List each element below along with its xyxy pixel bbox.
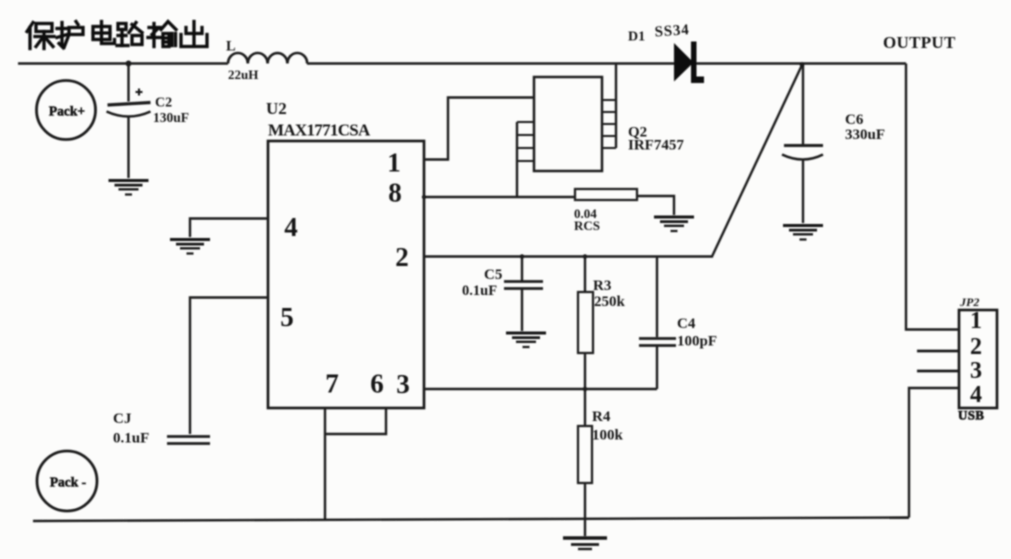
svg-text:U2: U2 [266,99,287,118]
svg-text:4: 4 [284,212,298,242]
svg-text:SS34: SS34 [654,22,690,40]
svg-text:0.1uF: 0.1uF [462,283,497,299]
svg-text:Pack -: Pack - [50,475,86,490]
svg-text:OUTPUT: OUTPUT [883,33,956,52]
svg-text:100k: 100k [592,428,624,444]
svg-text:7: 7 [325,369,339,399]
svg-text:4: 4 [970,382,982,408]
svg-text:250k: 250k [594,294,626,310]
svg-text:C6: C6 [845,112,864,128]
svg-text:2: 2 [970,334,982,360]
svg-text:CJ: CJ [113,411,132,427]
svg-text:D1: D1 [628,30,645,45]
svg-text:R3: R3 [593,278,611,294]
svg-text:C4: C4 [677,316,696,332]
svg-text:330uF: 330uF [845,127,885,143]
svg-text:5: 5 [280,302,294,332]
svg-text:R4: R4 [592,409,611,425]
svg-text:1: 1 [970,308,982,334]
svg-text:JP2: JP2 [959,295,979,309]
svg-text:100pF: 100pF [677,334,717,350]
svg-text:8: 8 [388,178,402,208]
svg-text:Pack+: Pack+ [49,104,85,119]
svg-text:3: 3 [396,369,410,399]
svg-text:USB: USB [958,408,984,423]
svg-text:2: 2 [395,242,409,272]
svg-text:3: 3 [970,358,982,384]
svg-text:L: L [226,39,236,55]
svg-text:22uH: 22uH [228,67,258,82]
svg-text:C5: C5 [484,267,502,283]
svg-text:130uF: 130uF [153,110,189,125]
svg-text:0.1uF: 0.1uF [113,431,149,447]
svg-text:6: 6 [370,369,384,399]
svg-text:C2: C2 [155,96,172,111]
svg-text:MAX1771CSA: MAX1771CSA [268,121,371,140]
svg-text:IRF7457: IRF7457 [628,138,684,154]
svg-text:RCS: RCS [574,218,600,233]
svg-text:1: 1 [387,148,401,178]
